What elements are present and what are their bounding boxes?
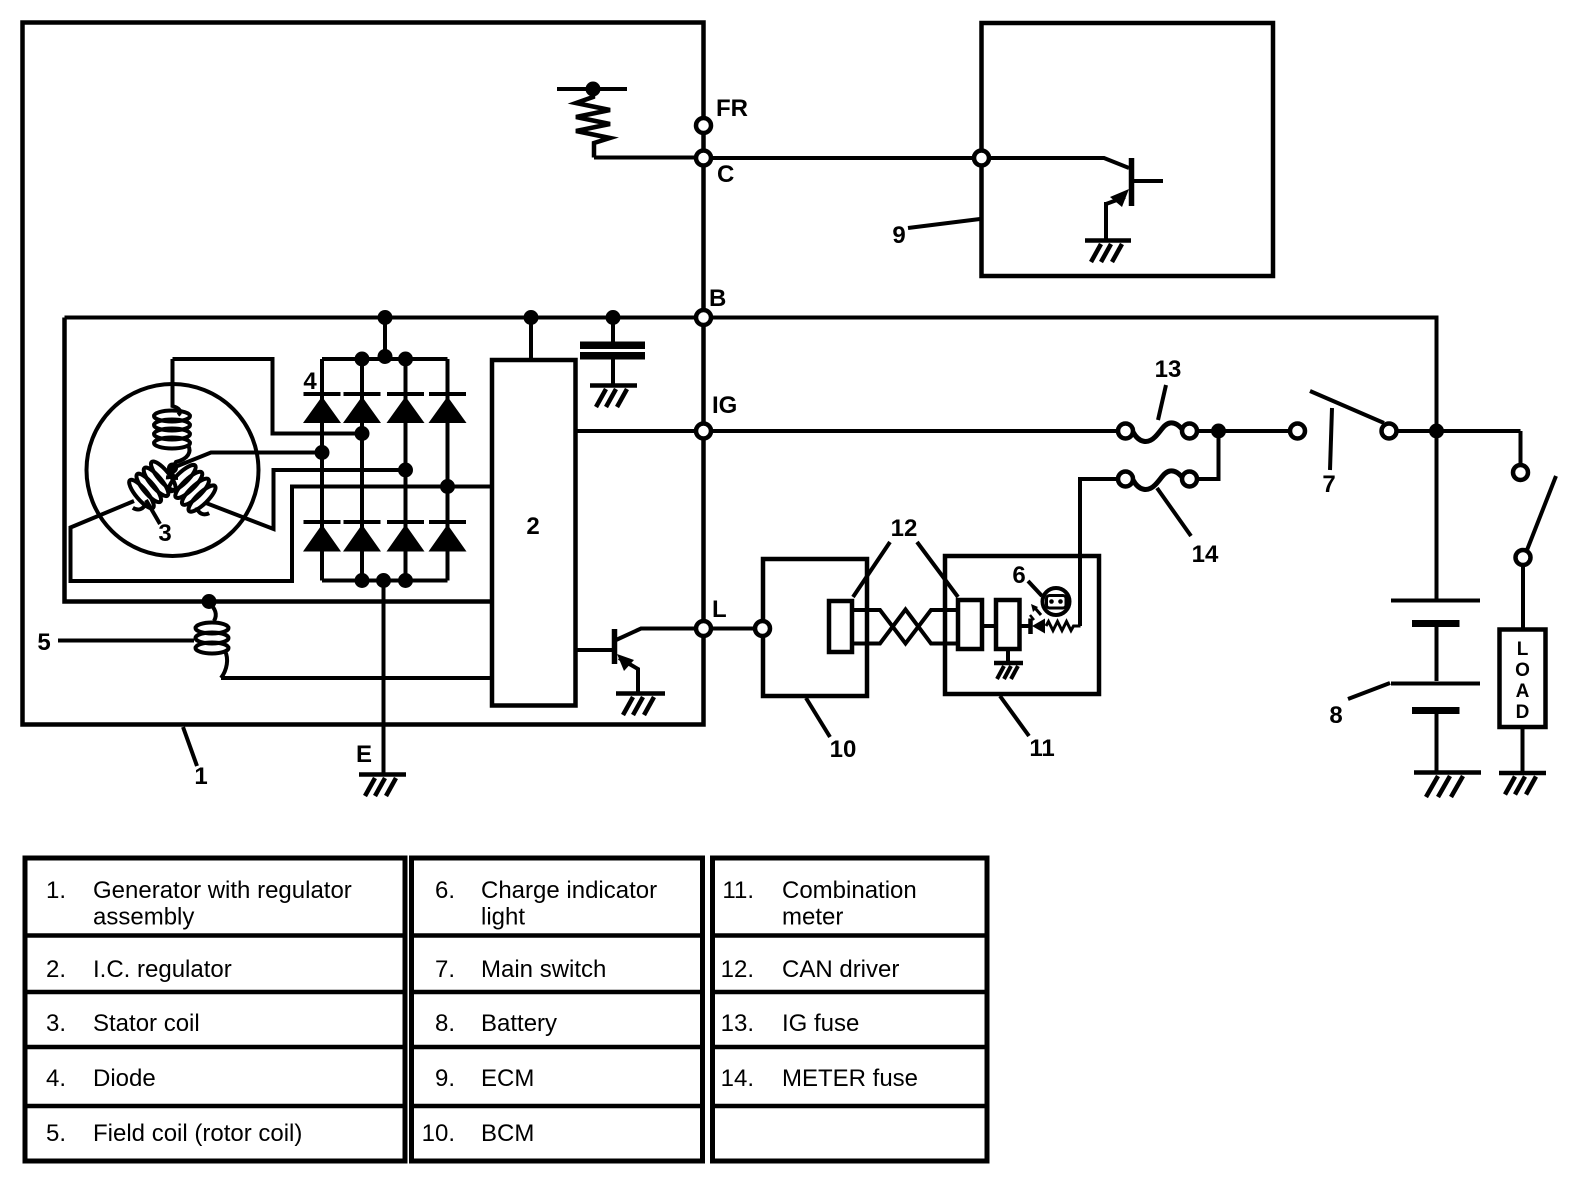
CAN driver 12 twisted pair wire A [852,610,958,644]
wire: field coil to regulator [221,676,492,680]
diode D2 (top row col2) [343,394,381,423]
charge indicator LED: wire [1020,624,1030,628]
svg-text:4.: 4. [46,1065,66,1092]
node: battery junction [1429,424,1444,439]
label 8 pointer [1348,683,1390,699]
bulb filament box [1047,596,1067,609]
main switch 7 contacts [1290,424,1305,439]
svg-text:Charge indicator: Charge indicator [481,877,657,904]
terminal C [696,151,711,166]
IG fuse 13 [1118,423,1197,442]
diode bridge 4: top rail [322,357,448,361]
stator top coil [154,359,190,468]
stator center node [167,463,178,474]
wire: CAN port to lamp module [982,624,996,628]
wire: L terminal to BCM [711,627,755,631]
svg-text:14.: 14. [721,1065,754,1092]
transistor Q2 (lamp driver) base wire [576,648,613,652]
ground: capacitor [590,386,637,408]
svg-text:B: B [709,285,726,312]
wire: bottom-left coil phase to regulator via col4 [71,487,493,582]
svg-text:FR: FR [716,95,748,122]
svg-text:13: 13 [1155,356,1182,383]
svg-text:11.: 11. [722,877,754,904]
ground: ECM emitter [1085,241,1131,263]
svg-text:IG: IG [712,392,737,419]
transistor Q2 emitter [619,658,638,692]
label 10 pointer [806,698,830,737]
svg-text:assembly: assembly [93,904,194,931]
transistor Q1 base bar [1129,158,1135,206]
svg-text:8.: 8. [435,1010,455,1037]
wire: fuse13 to node [1197,429,1213,433]
svg-text:6.: 6. [435,877,455,904]
svg-text:D: D [1516,702,1530,723]
svg-text:13.: 13. [721,1010,754,1037]
label 3 pointer [146,500,160,524]
LED cathode bar [1028,619,1033,635]
svg-text:4: 4 [303,368,317,395]
diode bridge bottom rail [322,579,448,583]
CAN port rect (meter) [958,600,982,649]
svg-text:Diode: Diode [93,1065,156,1092]
svg-text:ECM: ECM [481,1065,534,1092]
svg-text:CAN driver: CAN driver [782,956,899,983]
svg-text:6: 6 [1012,562,1025,589]
wire: regulator IG output [576,429,1119,433]
charge indicator light 6: bulb circle [1043,588,1070,615]
svg-text:8: 8 [1329,702,1342,729]
wire: E from diode rail to ground [382,581,386,774]
diode D4 (top row col4) [429,394,467,423]
label 7 pointer [1330,408,1332,470]
wire: node to main switch [1219,429,1292,433]
svg-text:Generator with regulator: Generator with regulator [93,877,352,904]
capacitor C1 lower stem [611,360,615,385]
svg-text:L: L [1517,639,1529,660]
wire: fuse14 to junction node [1197,438,1219,479]
lamp module rect [996,600,1020,649]
ground: lamp driver emitter [616,694,665,716]
diode D6 (bottom row col2) [343,522,381,552]
label 14 pointer [1157,488,1191,536]
node: bottom rail dots [355,573,370,588]
terminal L [696,621,711,636]
legend table column 3 [713,858,988,1161]
svg-text:1: 1 [194,763,207,790]
transistor Q2 emitter arrow [617,654,634,671]
ground: E terminal [359,775,406,797]
field coil 5 [196,602,229,679]
node: phase dots on columns [355,426,370,441]
terminal IG [696,424,711,439]
label 9 pointer [908,219,980,228]
svg-text:9: 9 [892,222,905,249]
resistor R zigzag [576,89,610,158]
svg-text:1.: 1. [46,877,66,904]
transistor Q1 emitter arrow [1110,189,1129,207]
ground: lamp module [994,649,1023,679]
transistor Q1 emitter lead [1104,202,1108,240]
svg-text:11: 11 [1029,735,1054,762]
terminal B [696,310,711,325]
diode D7 (bottom row col3) [387,522,425,552]
wire: LOAD to ground [1521,727,1525,772]
wire: feed to regulator top [529,318,533,361]
legend table column 2 [412,858,703,1161]
svg-text:IG fuse: IG fuse [782,1010,859,1037]
wire: resistor to C terminal [594,156,697,160]
battery 8 plates [1391,601,1480,772]
wire: bottom-right coil phase to diode col3 [206,470,406,529]
transistor Q1 collector [1133,179,1163,183]
diode D5 (bottom row col1) [303,522,341,552]
svg-text:Field coil (rotor coil): Field coil (rotor coil) [93,1120,302,1147]
wire: top coil phase to diode col2 [173,359,363,434]
stator 3: circle [87,384,259,556]
transistor Q1 (ECM) base wire [989,158,1129,168]
svg-text:14: 14 [1192,541,1219,568]
node: B rail to capacitor [606,310,621,325]
svg-text:3.: 3. [46,1010,66,1037]
stator bottom-left coil [118,454,184,518]
wire: B rail from inner box to right corner and down to battery [65,318,1437,601]
node: B rail to regulator [524,310,539,325]
main switch 7 lever [1310,391,1384,423]
diode D1 (top row col1) [303,394,341,423]
wire: lamp to METER fuse [1080,479,1119,626]
field coil 5: node on inner box [202,594,217,609]
IC regulator box 2 [492,360,576,706]
svg-text:I.C. regulator: I.C. regulator [93,956,232,983]
svg-text:2.: 2. [46,956,66,983]
stator bottom-right coil [160,455,226,522]
svg-text:10: 10 [830,736,857,763]
svg-text:light: light [481,904,525,931]
label 6 pointer [1028,581,1042,596]
terminal: ECM input circle [974,151,989,166]
label 5 pointer [58,639,194,643]
LED arrows [1035,608,1041,615]
combination meter box 11 [945,556,1099,694]
terminal: BCM L input circle [755,621,770,636]
svg-text:7: 7 [1322,471,1335,498]
diode columns [320,359,324,581]
CAN port rect (BCM) [829,601,852,652]
svg-text:Battery: Battery [481,1010,557,1037]
wire: stator neutral to diode col1 [173,453,323,469]
capacitor C1 plates [580,342,645,350]
diode D3 (top row col3) [387,394,425,423]
label 11 pointer [1000,696,1029,736]
svg-text:Stator coil: Stator coil [93,1010,200,1037]
transistor Q1 emitter [1106,197,1125,204]
CAN driver 12 twisted pair wire B [852,610,958,644]
ECM box 9 [982,23,1274,276]
svg-text:7.: 7. [435,956,455,983]
transistor Q2 collector [616,629,697,641]
load switch lever [1527,476,1556,550]
svg-text:3: 3 [158,520,171,547]
wire: C terminal to ECM [711,156,975,160]
node: B rail to diode bridge [378,310,393,325]
svg-text:5.: 5. [46,1120,66,1147]
wire: feed to diode top rail [383,318,387,360]
svg-text:C: C [717,161,734,188]
svg-text:12.: 12. [721,956,754,983]
ground: LOAD [1499,773,1546,795]
node: top rail dots [355,352,370,367]
inner regulator-assembly box [65,318,493,602]
terminal FR [696,118,711,133]
resistor R (FR sense) top wire [557,87,627,91]
node: resistor top [586,82,601,97]
wire: corner down to load switch [1519,431,1523,465]
svg-text:O: O [1515,660,1530,681]
LED triangle [1032,619,1045,634]
resistor (lamp) zigzag [1046,622,1081,631]
wire: load switch to LOAD [1521,565,1525,629]
label 13 pointer [1158,385,1166,420]
svg-text:A: A [1516,681,1530,702]
diode D8 (bottom row col4) [429,522,467,552]
METER fuse 14 [1118,471,1197,490]
wire: switch to battery node [1397,429,1521,433]
BCM box 10 [763,559,867,696]
svg-text:L: L [712,596,727,623]
LOAD box [1500,630,1546,728]
label 12 pointers [853,542,958,597]
node: fuse junction [1211,424,1226,439]
label 1 pointer [183,727,197,766]
svg-text:9.: 9. [435,1065,455,1092]
svg-text:12: 12 [891,515,918,542]
svg-text:BCM: BCM [481,1120,534,1147]
generator assembly box 1 [23,23,704,725]
svg-text:E: E [356,741,372,768]
legend table column 1 [25,858,405,1161]
svg-text:5: 5 [37,629,50,656]
load switch contacts [1513,465,1528,480]
svg-text:Combination: Combination [782,877,917,904]
svg-text:10.: 10. [422,1120,455,1147]
svg-text:meter: meter [782,904,843,931]
svg-text:2: 2 [526,513,539,540]
capacitor C1 stem [611,318,615,343]
svg-text:Main switch: Main switch [481,956,606,983]
transistor Q2 base bar [612,629,618,664]
svg-text:METER fuse: METER fuse [782,1065,918,1092]
ground: battery [1414,773,1481,798]
